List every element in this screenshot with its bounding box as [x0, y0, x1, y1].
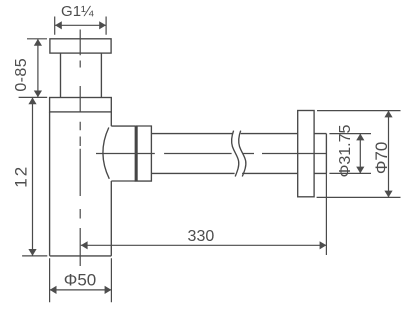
- phi50 left arrowhead: [50, 286, 57, 294]
- outlet nut thick face: [135, 126, 137, 181]
- phi70 dimension line: [388, 111, 390, 198]
- phi31.75 bottom arrowhead: [356, 167, 364, 174]
- 330 right extension line: [325, 173, 327, 255]
- 12 dimension line: [32, 98, 34, 256]
- outlet stub: [111, 126, 135, 181]
- svg-text:Φ70: Φ70: [372, 142, 391, 174]
- body/outlet intersection arc: [103, 128, 109, 179]
- pipe break curve left: [232, 131, 239, 177]
- 12 bottom arrowhead: [28, 249, 36, 256]
- svg-text:Φ50: Φ50: [64, 270, 96, 289]
- body top nut: [50, 98, 112, 112]
- svg-text:0-85: 0-85: [13, 58, 30, 92]
- phi50 extension lines: [50, 258, 112, 302]
- vertical centerline: [79, 30, 81, 267]
- phi31.75 dimension line: [359, 134, 361, 174]
- phi31.75 extension lines: [329, 134, 371, 174]
- 0-85 extension lines: [19, 39, 48, 98]
- wall stub: [314, 134, 326, 174]
- 12 top arrowhead: [28, 98, 36, 105]
- phi70 extension lines: [317, 111, 401, 198]
- 330 right arrowhead: [320, 241, 327, 249]
- top flange (inlet nut): [50, 39, 111, 53]
- trap body outline: [50, 112, 112, 256]
- 330 dimension line: [81, 244, 327, 246]
- pipe break curve right: [239, 131, 246, 177]
- pipe bottom line: [151, 172, 297, 174]
- outlet nut: [135, 126, 151, 181]
- G1 1/4 left arrowhead: [55, 21, 62, 29]
- 12 bottom extension line: [22, 255, 47, 257]
- phi70 top arrowhead: [384, 111, 392, 118]
- phi50 right arrowhead: [105, 286, 112, 294]
- G1 1/4 extension lines: [55, 17, 106, 35]
- 0-85 bottom arrowhead: [34, 91, 42, 98]
- horizontal centerline: [96, 153, 327, 155]
- svg-text:G1¼: G1¼: [61, 3, 94, 20]
- centerlines: [80, 30, 327, 267]
- G1 1/4 right arrowhead: [99, 21, 106, 29]
- 330 left arrowhead: [81, 241, 88, 249]
- svg-text:12: 12: [12, 165, 31, 188]
- phi31.75 top arrowhead: [356, 134, 364, 141]
- wall flange: [298, 111, 314, 197]
- 0-85 dimension line: [37, 39, 39, 97]
- phi70 bottom arrowhead: [384, 191, 392, 198]
- pipe top line: [151, 133, 297, 135]
- G1 1/4 dimension line: [55, 24, 106, 26]
- 0-85 top arrowhead: [34, 39, 42, 46]
- phi50 dimension line: [50, 289, 112, 291]
- svg-text:Φ31.75: Φ31.75: [337, 125, 354, 178]
- svg-text:330: 330: [188, 228, 215, 245]
- adjustable tube: [61, 53, 102, 97]
